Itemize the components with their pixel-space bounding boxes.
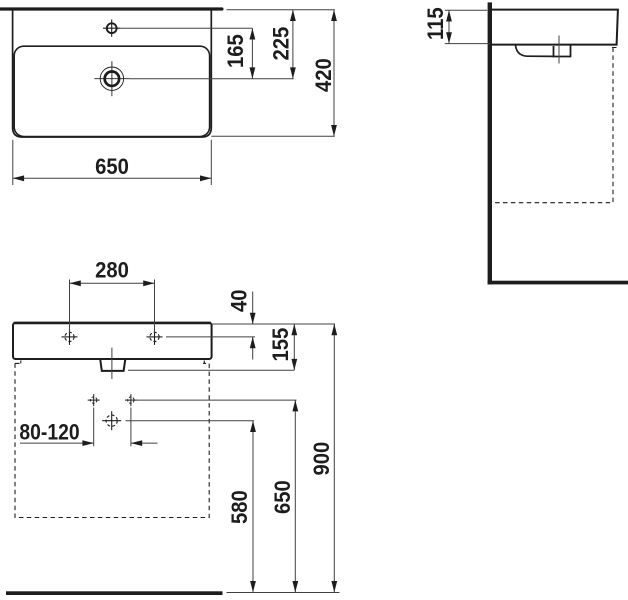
drain hole (top view) bbox=[94, 61, 129, 96]
svg-text:580: 580 bbox=[228, 490, 252, 524]
drain box (side view) bbox=[554, 46, 571, 57]
tap hole right (front view) bbox=[147, 329, 163, 345]
svg-text:280: 280 bbox=[95, 259, 129, 283]
bottom extension line (420) bbox=[211, 135, 334, 137]
drain funnel (front view) bbox=[100, 360, 125, 371]
funnel-bottom reference line (front view) bbox=[128, 369, 294, 371]
dimension 650 (height) bbox=[271, 400, 298, 592]
funnel axis line bbox=[111, 348, 113, 379]
dimension 900 bbox=[310, 324, 337, 592]
dimension 155 bbox=[269, 324, 297, 370]
floor line (front view) bbox=[6, 591, 223, 595]
bowl profile (side view) bbox=[516, 45, 554, 56]
drain reference line (front view) bbox=[126, 420, 255, 422]
faucet hole (top view) bbox=[103, 20, 120, 37]
drain hole (front view) bbox=[102, 411, 121, 430]
svg-text:900: 900 bbox=[310, 442, 334, 476]
dimension 80-120 bbox=[19, 408, 157, 447]
top-edge reference line (front view) bbox=[212, 323, 335, 325]
dimension 420 bbox=[312, 10, 337, 137]
dimension 40 bbox=[228, 289, 256, 359]
dimension 115 bbox=[424, 7, 490, 43]
svg-text:80-120: 80-120 bbox=[19, 420, 79, 444]
svg-text:155: 155 bbox=[269, 328, 293, 362]
svg-text:225: 225 bbox=[270, 27, 294, 61]
svg-text:40: 40 bbox=[228, 289, 252, 312]
basin outline (front view) bbox=[13, 323, 212, 359]
basin inner bowl (top view) bbox=[14, 46, 209, 136]
basin top edge emphasis (front view) bbox=[14, 322, 212, 324]
svg-text:420: 420 bbox=[312, 58, 336, 92]
dimension 280 bbox=[70, 259, 155, 333]
svg-text:650: 650 bbox=[95, 155, 129, 179]
drain reference line bbox=[129, 78, 293, 80]
faucet axis line (side view) bbox=[558, 36, 560, 64]
fixing hole left (front view) bbox=[88, 394, 100, 406]
wall line (side view) bbox=[488, 2, 492, 284]
dashed siphon space (side view) bbox=[491, 48, 616, 203]
svg-text:165: 165 bbox=[224, 34, 248, 68]
basin outer outline (top view) bbox=[13, 11, 212, 138]
floor thin line (front view) bbox=[227, 592, 340, 594]
basin profile (side view) bbox=[492, 10, 618, 45]
wall line (top view) bbox=[0, 7, 224, 10]
dimension 165 bbox=[224, 28, 255, 78]
dimension 225 bbox=[270, 10, 296, 79]
svg-text:650: 650 bbox=[271, 480, 295, 514]
dimension 580 bbox=[228, 421, 256, 593]
faucet reference line bbox=[120, 27, 252, 29]
tap hole left (front view) bbox=[62, 329, 78, 345]
dimension 650 bbox=[13, 140, 212, 185]
svg-text:115: 115 bbox=[424, 7, 448, 40]
top extension line bbox=[227, 9, 335, 11]
tap-hole reference line (front view) bbox=[166, 336, 255, 338]
fixing-hole reference line (front view) bbox=[136, 399, 297, 401]
dashed cabinet rect (front view) bbox=[15, 361, 209, 518]
fixing hole right (front view) bbox=[125, 394, 137, 406]
floor line (side view) bbox=[488, 281, 628, 285]
